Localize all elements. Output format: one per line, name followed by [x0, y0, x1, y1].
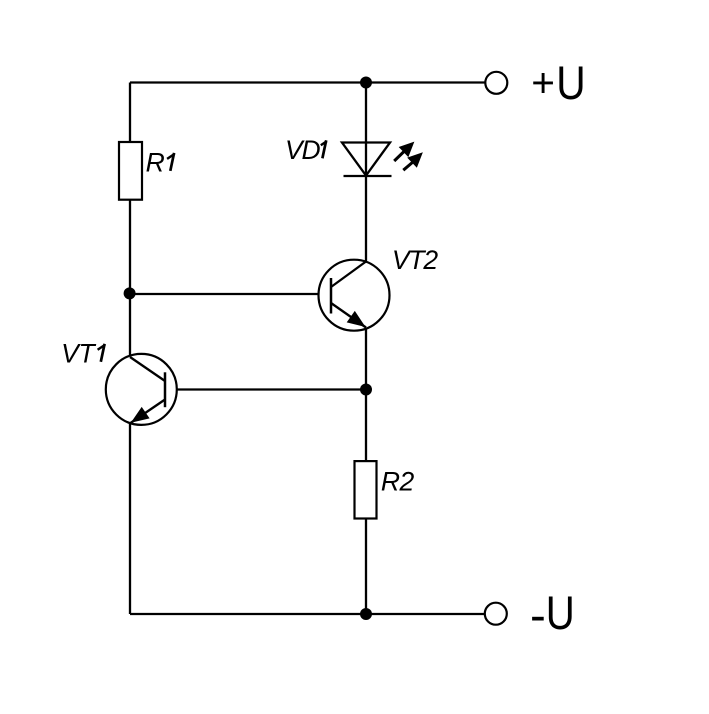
- svg-text:R2: R2: [381, 467, 415, 497]
- svg-text:VT2: VT2: [392, 245, 438, 275]
- svg-text:U: U: [546, 587, 575, 640]
- svg-text:U: U: [556, 57, 585, 110]
- svg-text:+: +: [531, 59, 555, 105]
- svg-text:VD: VD: [285, 135, 320, 165]
- svg-text:VT: VT: [61, 339, 96, 369]
- svg-text:-: -: [530, 589, 546, 642]
- svg-text:R: R: [146, 148, 165, 178]
